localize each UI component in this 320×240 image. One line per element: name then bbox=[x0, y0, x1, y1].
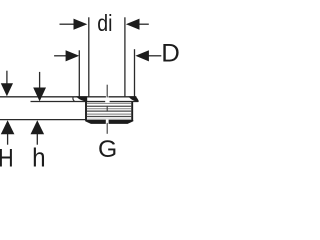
svg-text:G: G bbox=[98, 136, 117, 163]
svg-text:D: D bbox=[161, 40, 180, 68]
svg-text:di: di bbox=[97, 10, 112, 36]
svg-text:h: h bbox=[32, 144, 45, 173]
svg-text:H: H bbox=[0, 144, 14, 172]
